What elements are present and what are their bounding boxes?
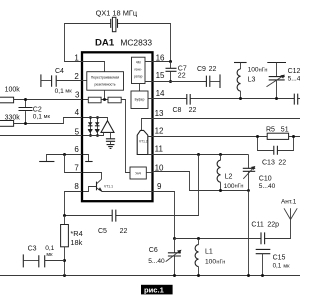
svg-text:C13: C13: [262, 160, 275, 167]
node L3 bottom: [239, 97, 242, 100]
svg-text:100: 100: [248, 67, 259, 74]
svg-text:C8: C8: [173, 107, 182, 114]
svg-text:18k: 18k: [70, 238, 82, 247]
transistor VT1.1: [83, 179, 153, 191]
svg-text:ЧМ: ЧМ: [136, 61, 141, 65]
svg-text:2: 2: [74, 72, 79, 81]
inductor L1: [195, 239, 225, 276]
svg-text:DA1: DA1: [95, 38, 115, 49]
badge fig.1: [141, 285, 173, 295]
svg-text:мк: мк: [283, 263, 290, 269]
block tunable reactance: [87, 72, 124, 91]
svg-text:MC2833: MC2833: [120, 37, 152, 47]
block buffer: [131, 91, 153, 109]
block pin10 amp: [130, 167, 153, 179]
pin numbers right: [155, 54, 165, 191]
svg-text:реактивность: реактивность: [94, 83, 115, 87]
capacitor C13: [258, 137, 294, 167]
internal wire pin3 line / stem to block: [83, 90, 130, 172]
svg-text:1: 1: [74, 53, 79, 62]
svg-text:C6: C6: [149, 247, 158, 254]
svg-text:VT1.1: VT1.1: [104, 184, 113, 188]
svg-text:10: 10: [155, 163, 164, 172]
node C12 bottom: [275, 97, 278, 100]
svg-text:9: 9: [157, 182, 162, 191]
svg-text:6: 6: [74, 145, 79, 154]
svg-text:22p: 22p: [267, 221, 279, 228]
internal resistor R-b: [108, 97, 121, 103]
node pin8/C5/R4: [63, 214, 66, 217]
svg-text:C15: C15: [273, 254, 286, 261]
wire pin11 line: [153, 154, 249, 156]
svg-text:L3: L3: [248, 76, 256, 83]
capacitor C14 (edge): [294, 94, 297, 105]
svg-text:100k: 100k: [5, 86, 21, 93]
internal diodes: [88, 118, 100, 136]
svg-text:мк: мк: [44, 114, 51, 120]
wire pin13 line: [153, 118, 301, 120]
wire pin5 line: [0, 135, 82, 137]
svg-text:8: 8: [74, 182, 79, 191]
svg-text:ратор: ратор: [134, 75, 143, 79]
capacitor C2: [19, 100, 51, 124]
node internal divider: [103, 98, 106, 101]
svg-text:100: 100: [224, 183, 235, 190]
node diode taps: [89, 116, 92, 119]
op-amp IC body DA1: [82, 52, 153, 201]
capacitor C4 with input terminal: [41, 68, 82, 95]
capacitor C3 with input terminal: [23, 245, 64, 267]
resistor 100k: [0, 86, 82, 102]
internal wire pin4: [83, 118, 108, 121]
svg-text:22: 22: [209, 66, 217, 73]
svg-text:7: 7: [74, 164, 79, 173]
svg-text:22: 22: [178, 73, 186, 80]
svg-text:C11: C11: [251, 221, 263, 228]
capacitor C8: [173, 94, 197, 114]
trimmer capacitor C6: [148, 239, 181, 276]
svg-text:5...4: 5...4: [288, 75, 300, 82]
svg-text:0,1: 0,1: [55, 88, 64, 95]
svg-text:C4: C4: [55, 68, 64, 75]
svg-text:VT1.2: VT1.2: [139, 140, 148, 144]
svg-text:0,1: 0,1: [273, 263, 282, 270]
wire pin14 line: [153, 98, 301, 100]
svg-text:13: 13: [155, 109, 164, 118]
wire pin8 down to C5 node: [65, 192, 83, 216]
svg-text:C7: C7: [178, 65, 187, 72]
svg-text:11: 11: [155, 145, 164, 154]
inductor L2: [217, 155, 243, 191]
node R4/C3: [63, 259, 66, 262]
resistor R5: [266, 127, 289, 140]
svg-text:5: 5: [75, 127, 80, 136]
svg-text:рис.1: рис.1: [144, 286, 165, 295]
internal resistor R-a: [88, 97, 101, 103]
svg-text:Ант.1: Ант.1: [281, 199, 297, 206]
trimmer capacitor C12: [267, 63, 301, 99]
node L2 bottom: [219, 189, 222, 192]
wire pin6 with chassis terminal: [39, 155, 82, 162]
inductor L3: [234, 63, 268, 99]
svg-text:0,1: 0,1: [33, 113, 42, 120]
crystal QX1: [65, 17, 171, 61]
svg-text:L1: L1: [205, 248, 213, 255]
svg-text:Перестраиваемая: Перестраиваемая: [91, 76, 120, 80]
resistor 330k: [0, 114, 82, 126]
block FM generator: [132, 57, 153, 91]
svg-text:22: 22: [278, 160, 286, 167]
node pin6/pin7: [63, 153, 66, 156]
svg-text:3: 3: [75, 91, 80, 100]
pin numbers left: [74, 53, 80, 191]
svg-text:C12: C12: [288, 68, 300, 75]
svg-text:нГн: нГн: [216, 259, 225, 265]
capacitor C11: [251, 221, 279, 244]
svg-text:мк: мк: [46, 252, 53, 258]
svg-text:C3: C3: [28, 245, 37, 252]
transistor VT1.2: [137, 119, 152, 155]
op-amp mic amplifier: [83, 121, 115, 149]
wire pin9 down: [153, 192, 175, 239]
resistor R4: [61, 216, 83, 276]
svg-text:QX1 18 МГц: QX1 18 МГц: [96, 9, 138, 18]
wire C10 bottom to ground rail: [248, 191, 250, 276]
wire pin15 to C9: [153, 81, 207, 83]
svg-text:100: 100: [205, 259, 216, 266]
wire pin12 line: [153, 136, 301, 138]
svg-text:4: 4: [75, 108, 80, 117]
svg-text:мк: мк: [65, 89, 72, 95]
svg-text:330k: 330k: [5, 114, 21, 121]
internal wire pin2: [82, 80, 87, 82]
capacitor C7: [166, 62, 187, 82]
svg-text:R5: R5: [266, 127, 275, 134]
svg-text:12: 12: [155, 126, 164, 135]
node pin16/crystal junction: [169, 60, 172, 63]
svg-text:Буфер: Буфер: [135, 98, 145, 102]
svg-text:16: 16: [156, 54, 165, 63]
internal wire pin1 to reactance block: [82, 62, 105, 72]
node L1 top: [197, 237, 200, 240]
node C10 bottom: [247, 189, 250, 192]
svg-text:нГн: нГн: [235, 184, 244, 190]
node pin15 junction: [169, 80, 172, 83]
svg-text:*R4: *R4: [70, 229, 82, 238]
wire pin11 tap down to C5: [116, 155, 199, 216]
wire pin7 jog up to pin6: [65, 155, 83, 173]
ground rail: [0, 275, 300, 277]
wire pin10 jog to tank bottom: [153, 172, 249, 191]
capacitor C15: [256, 249, 290, 275]
svg-text:C9: C9: [197, 66, 206, 73]
svg-text:15: 15: [156, 71, 165, 80]
node rail junctions: [63, 274, 66, 277]
node y238 left: [173, 237, 176, 240]
svg-text:14: 14: [156, 89, 165, 98]
internal wire pin6 chassis: [83, 155, 93, 162]
node pin11 taps: [197, 153, 200, 156]
svg-text:C10: C10: [259, 175, 272, 182]
capacitor C9: [197, 66, 220, 88]
svg-text:УнЧ: УнЧ: [135, 172, 141, 176]
svg-text:нГн: нГн: [259, 67, 268, 73]
svg-text:L2: L2: [225, 173, 233, 180]
capacitor C5: [65, 210, 128, 235]
node C2 top / bottom: [24, 98, 27, 101]
antenna Ant1: [281, 199, 297, 220]
internal wire pin7 to VT1.1 collector: [83, 173, 102, 180]
svg-text:22: 22: [189, 107, 197, 114]
svg-text:5...40: 5...40: [148, 258, 165, 265]
svg-text:51: 51: [281, 127, 289, 134]
svg-text:5...40: 5...40: [259, 183, 276, 190]
svg-text:гене-: гене-: [134, 68, 141, 72]
trimmer capacitor C10: [243, 155, 276, 191]
svg-text:C5: C5: [98, 228, 107, 235]
wire coupling line y238: [175, 220, 291, 239]
node R5 left / right: [256, 135, 259, 138]
svg-text:22: 22: [120, 228, 128, 235]
